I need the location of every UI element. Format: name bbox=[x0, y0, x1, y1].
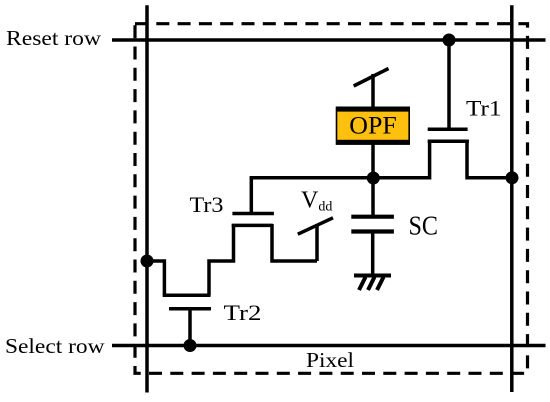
svg-text:OPF: OPF bbox=[349, 111, 397, 140]
capacitor SC top plate bbox=[351, 215, 394, 219]
svg-text:Reset row: Reset row bbox=[6, 26, 102, 50]
transistor Tr2 gate bar bbox=[169, 307, 211, 311]
wire Tr2 gate lead bbox=[188, 309, 192, 346]
svg-text:Tr1: Tr1 bbox=[466, 96, 502, 121]
wire OPF bottom to node to capacitor SC bbox=[371, 144, 375, 217]
transistor Tr2 channel bar bbox=[163, 294, 211, 298]
junction dot left column / Tr2 drain bbox=[141, 255, 154, 268]
junction dot select row / Tr2 gate bbox=[184, 339, 197, 352]
select row line bbox=[112, 344, 546, 348]
OPF photoconductive film box bbox=[336, 107, 410, 144]
svg-text:SC: SC bbox=[409, 211, 439, 241]
ground hatch stroke 1 bbox=[359, 277, 366, 290]
wire OPF top stub bbox=[371, 74, 375, 107]
wire left column to Tr2 drain bbox=[147, 261, 164, 295]
wire Tr3 source to Vdd stub bbox=[272, 224, 317, 261]
Vdd slanted electrode stroke bbox=[298, 218, 333, 234]
transistor Tr3 channel bar bbox=[232, 224, 273, 228]
wire Tr3 drain to Tr2 source staircase bbox=[209, 224, 234, 295]
ground bar bbox=[354, 274, 391, 278]
reset row line bbox=[112, 38, 546, 42]
ground hatch stroke 3 bbox=[377, 277, 384, 290]
wire node to Tr1 drain and Tr3 gate lead bbox=[251, 140, 429, 212]
wire Tr1 source to right column bbox=[467, 140, 512, 178]
transistor Tr1 gate bar bbox=[428, 128, 468, 132]
right column data line bbox=[510, 5, 514, 392]
wire Tr1 gate lead bbox=[447, 40, 451, 131]
junction dot reset row / Tr1 gate bbox=[443, 34, 456, 47]
wire Vdd stub bbox=[315, 225, 319, 262]
svg-text:Pixel: Pixel bbox=[306, 348, 354, 372]
wire SC to ground bbox=[371, 232, 375, 274]
transistor Tr3 gate bar bbox=[232, 212, 274, 216]
svg-text:Tr3: Tr3 bbox=[190, 192, 224, 217]
capacitor SC bottom plate bbox=[351, 229, 394, 233]
junction dot right column / Tr1 source bbox=[506, 171, 519, 184]
node pixel electrode junction dot bbox=[367, 172, 380, 185]
svg-text:Tr2: Tr2 bbox=[224, 300, 262, 325]
svg-text:Select row: Select row bbox=[5, 334, 105, 358]
transistor Tr1 channel bar bbox=[428, 140, 469, 144]
ground hatch stroke 2 bbox=[368, 277, 375, 290]
left column data line bbox=[145, 5, 149, 392]
pixel boundary dashed box bbox=[135, 24, 528, 374]
OPF top slanted electrode stroke bbox=[354, 69, 389, 87]
